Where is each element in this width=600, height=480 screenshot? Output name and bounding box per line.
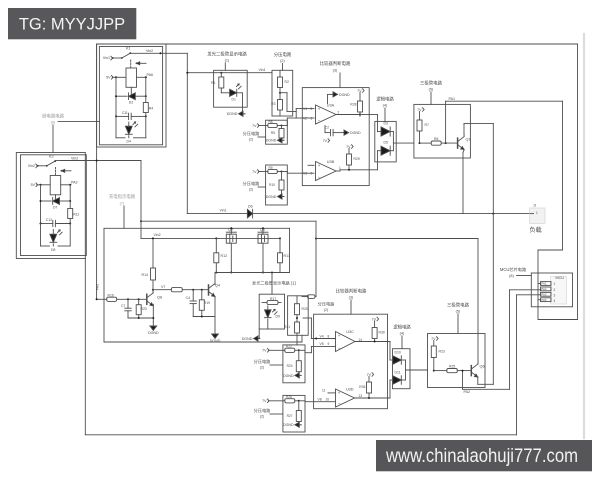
- svg-text:R7: R7: [425, 123, 429, 127]
- node Vin1 label top: [259, 68, 266, 72]
- wire label8 to box: [517, 275, 532, 277]
- switch K2: [37, 160, 56, 167]
- svg-text:R10: R10: [269, 183, 275, 187]
- svg-text:分压电路: 分压电路: [243, 130, 261, 137]
- svg-text:V7: V7: [161, 285, 165, 289]
- wire Vin2 vertical: [140, 161, 142, 239]
- svg-text:6: 6: [311, 117, 313, 121]
- capacitor C12: [40, 218, 72, 227]
- node V6 pin: [318, 398, 330, 402]
- svg-text:PA2: PA2: [541, 287, 547, 291]
- svg-text:(8): (8): [509, 274, 514, 278]
- svg-text:Q6: Q6: [480, 365, 485, 369]
- wire V1 V2 stubs: [296, 109, 302, 118]
- svg-text:D7: D7: [53, 205, 57, 209]
- svg-text:DGND: DGND: [350, 131, 361, 135]
- svg-text:分压电路: 分压电路: [274, 51, 292, 58]
- svg-text:−: −: [318, 174, 321, 179]
- node 7V divider G: [262, 399, 269, 403]
- svg-text:发光二极管显示电路 (1): 发光二极管显示电路 (1): [252, 280, 297, 287]
- svg-text:R24: R24: [287, 364, 293, 368]
- wire MCU pin1 stub: [538, 283, 541, 285]
- transistor Q7: [226, 228, 236, 243]
- relay1 outer box: [97, 44, 166, 147]
- wire label4b to box: [401, 336, 403, 349]
- svg-text:DGND: DGND: [283, 423, 294, 427]
- svg-text:(2): (2): [260, 366, 264, 370]
- header text TG: MYYJJPP: [19, 16, 125, 34]
- svg-text:7V: 7V: [262, 349, 267, 353]
- svg-text:三极管电路: 三极管电路: [447, 302, 470, 309]
- MCU pin1 PA1: [541, 282, 556, 287]
- node V3 pin: [302, 165, 314, 175]
- divider box A: [272, 70, 293, 116]
- svg-text:8: 8: [328, 334, 330, 338]
- svg-text:逻辑电路: 逻辑电路: [393, 324, 411, 331]
- wire PA2 horizontal: [463, 388, 510, 390]
- svg-text:R1: R1: [211, 81, 215, 85]
- svg-text:7V: 7V: [252, 124, 257, 128]
- label transistor circuit lower: [447, 302, 470, 314]
- svg-text:7V: 7V: [252, 170, 257, 174]
- charge box top edge: [141, 220, 316, 222]
- wire PA1 tap: [445, 101, 447, 143]
- op-amp U3C: [336, 330, 356, 352]
- label divider G: [254, 407, 283, 419]
- svg-text:R26: R26: [286, 395, 292, 399]
- wire Vin2 jog from relay K1: [166, 53, 187, 213]
- comparator box 2: [314, 314, 388, 409]
- svg-text:R20: R20: [302, 307, 308, 311]
- label charge circuit (7): [109, 193, 136, 228]
- svg-text:U3C: U3C: [346, 330, 354, 334]
- node Vin2 label relay1: [146, 49, 153, 53]
- wire logic1 out: [393, 132, 414, 151]
- wire U3A out: [336, 111, 369, 116]
- label divider small right: [318, 301, 336, 313]
- resistor R2: [278, 70, 289, 87]
- svg-text:7V: 7V: [323, 139, 328, 143]
- wire R12 to Q4 collector: [215, 263, 280, 285]
- divider box F: [283, 345, 305, 383]
- node PA3 label relay2: [71, 181, 78, 185]
- svg-text:9: 9: [328, 342, 330, 346]
- wire driver right edge: [289, 228, 291, 272]
- node 7V R29: [346, 145, 353, 149]
- relay2 aux contact: [61, 169, 71, 172]
- wire Q8 emitter bottom rail: [128, 304, 154, 322]
- wire relay2 coil bottom: [55, 195, 57, 201]
- svg-text:PA5: PA5: [541, 298, 547, 302]
- svg-text:Vin2: Vin2: [71, 157, 78, 161]
- wire U3B out: [336, 166, 369, 171]
- ground DGND divider B: [266, 138, 284, 143]
- svg-text:D2: D2: [129, 101, 133, 105]
- resistor R3: [271, 88, 282, 117]
- svg-text:三极管电路: 三极管电路: [420, 80, 443, 87]
- wire Q6 base drop: [462, 371, 464, 390]
- wire relay2 led rails: [41, 224, 71, 247]
- svg-text:R30: R30: [379, 331, 385, 335]
- svg-text:R22: R22: [286, 345, 292, 349]
- node pin 11: [322, 389, 335, 393]
- svg-text:PA1: PA1: [541, 282, 547, 286]
- svg-text:R11: R11: [73, 213, 79, 217]
- wire label4 to box: [384, 108, 386, 121]
- svg-text:(2): (2): [249, 188, 253, 192]
- wire relay2 right row: [61, 184, 71, 186]
- svg-text:C2: C2: [325, 126, 329, 130]
- capacitor C11: [115, 111, 147, 120]
- svg-text:R29: R29: [354, 157, 360, 161]
- diode D3: [381, 122, 393, 137]
- svg-text:R3: R3: [271, 102, 275, 106]
- label transistor circuit (5): [420, 80, 443, 92]
- svg-text:(2): (2): [280, 59, 285, 63]
- wire relay2 right rail: [69, 185, 71, 201]
- ground DGND divider G: [283, 422, 301, 427]
- MCU body: [551, 277, 567, 305]
- svg-text:PA2: PA2: [464, 390, 471, 394]
- wire Q4 emitter down: [214, 297, 216, 331]
- node PA1 label: [449, 97, 456, 101]
- wire Q1 collector jog: [464, 124, 493, 135]
- wire PA1 jog horizontal: [538, 249, 563, 251]
- capacitor C4: [186, 290, 197, 317]
- svg-text:PA3: PA3: [71, 181, 78, 185]
- node 7V R28: [357, 89, 364, 93]
- resistor R15: [153, 288, 209, 292]
- wire MCU loop left vertical: [537, 250, 539, 320]
- resistor R21: [284, 315, 299, 333]
- op-amp U3A: [316, 104, 337, 125]
- resistor R18 jog: [302, 295, 316, 299]
- relay2 outer box: [16, 153, 85, 259]
- svg-text:(5): (5): [429, 88, 434, 92]
- ground DGND led1: [227, 111, 245, 116]
- wire divider G out: [299, 400, 305, 403]
- svg-text:U3A: U3A: [327, 104, 335, 108]
- resistor R11: [68, 201, 80, 224]
- svg-text:10: 10: [326, 398, 330, 402]
- label LED display circuit (1): [207, 51, 247, 63]
- wire Q7 drain up: [230, 227, 232, 234]
- wire PA3 stub to MCU pin3: [517, 294, 541, 296]
- wire Q1 collector: [463, 135, 465, 137]
- svg-text:D3: D3: [384, 122, 388, 126]
- charge box right lower stub: [301, 335, 303, 342]
- svg-text:R20: R20: [141, 307, 147, 311]
- resistor R28: [350, 93, 362, 117]
- node V1 pin: [302, 107, 314, 111]
- wire R1 feed: [220, 73, 222, 77]
- svg-text:U3D: U3D: [346, 388, 354, 392]
- svg-text:R6: R6: [434, 137, 438, 141]
- svg-text:分压电路: 分压电路: [254, 358, 272, 365]
- svg-text:3: 3: [554, 293, 556, 297]
- ground DGND driver left: [148, 322, 159, 335]
- wire label3b to box: [350, 300, 352, 314]
- wire C4 R19 bottom rail: [193, 316, 215, 318]
- wire K1 to edge: [130, 52, 166, 54]
- diode D10: [393, 350, 406, 364]
- label load: [529, 226, 541, 234]
- svg-text:(4): (4): [400, 332, 405, 336]
- relay K2 label: [49, 155, 54, 159]
- svg-text:R9: R9: [269, 166, 273, 170]
- wire U3B out to D5: [369, 151, 381, 170]
- transistor Q1: [458, 137, 471, 150]
- node PA5 vertical label: [95, 284, 99, 290]
- svg-text:C12: C12: [46, 218, 52, 222]
- wire label6 to relay1: [58, 121, 99, 123]
- ground DGND driver mid: [210, 330, 221, 343]
- label relay circuit (6): [42, 113, 65, 125]
- label comparator circuit (3): [320, 60, 351, 73]
- wire V5 into box: [305, 346, 335, 352]
- svg-text:R19: R19: [204, 301, 210, 305]
- divider box B: [266, 120, 288, 144]
- svg-text:D6: D6: [248, 204, 253, 208]
- svg-text:DGND: DGND: [266, 139, 277, 143]
- svg-text:R4: R4: [149, 107, 153, 111]
- svg-text:D9: D9: [276, 315, 280, 319]
- svg-text:逻辑电路: 逻辑电路: [376, 96, 394, 103]
- svg-text:(2): (2): [324, 308, 328, 312]
- node Vin2 label driver: [154, 233, 161, 237]
- resistor R26: [269, 395, 300, 403]
- svg-text:MCU: MCU: [556, 276, 565, 280]
- relay2 coil: [50, 176, 61, 195]
- label divider C: [243, 180, 266, 192]
- node Vin2 label relay2: [71, 157, 78, 161]
- svg-text:DGND: DGND: [339, 93, 350, 97]
- wire R16 row: [96, 298, 107, 300]
- svg-text:Vin2: Vin2: [154, 233, 161, 237]
- svg-text:Vin1: Vin1: [103, 56, 110, 60]
- load connector J1: [530, 204, 546, 224]
- wire V4 into box: [311, 318, 335, 340]
- resistor R13: [278, 238, 291, 262]
- svg-text:R27: R27: [287, 414, 293, 418]
- svg-text:J1: J1: [533, 204, 537, 208]
- wire LED2 feed: [271, 273, 273, 295]
- resistor R19: [199, 290, 210, 317]
- footer text www.chinalaohuji777.com: [385, 446, 578, 467]
- svg-text:(2): (2): [260, 415, 264, 419]
- node Vin1 label mid: [220, 209, 227, 213]
- svg-text:2: 2: [338, 111, 340, 115]
- svg-text:继电器电路: 继电器电路: [42, 113, 65, 120]
- wire divider F out: [299, 350, 305, 352]
- svg-text:K1: K1: [126, 47, 131, 51]
- ground DGND U3A top: [328, 92, 350, 104]
- svg-text:7V: 7V: [262, 399, 267, 403]
- resistor R17: [262, 297, 281, 305]
- capacitor C2: [325, 126, 344, 136]
- wire Q7 source down: [230, 243, 232, 273]
- transistor Q9: [258, 228, 268, 243]
- wire relay2 Vin2 out: [61, 160, 142, 162]
- wire driver mid rail: [215, 272, 289, 274]
- svg-text:www.chinalaohuji777.com: www.chinalaohuji777.com: [385, 446, 578, 467]
- wire U3C out: [355, 338, 390, 343]
- resistor R14: [142, 237, 156, 280]
- relay1 inner box: [99, 47, 162, 145]
- svg-text:分压电路: 分压电路: [243, 180, 261, 187]
- divider box C: [266, 165, 288, 205]
- wire PA2 vertical: [509, 290, 511, 390]
- svg-text:D5: D5: [384, 141, 388, 145]
- svg-text:Vin1: Vin1: [259, 68, 266, 72]
- resistor R12: [214, 238, 227, 262]
- node 5V terminal relay1: [106, 76, 113, 80]
- svg-text:V4: V4: [320, 334, 324, 338]
- wire relay1 5V row: [112, 76, 126, 78]
- svg-text:R25: R25: [449, 364, 455, 368]
- wire label1 to box: [224, 63, 226, 70]
- resistor R8: [259, 120, 283, 128]
- svg-text:R2: R2: [285, 80, 289, 84]
- wire relay1 right row: [137, 76, 147, 78]
- svg-text:(3): (3): [349, 296, 354, 300]
- wire load rail: [187, 213, 530, 215]
- svg-text:充电指示电路: 充电指示电路: [109, 193, 136, 200]
- svg-text:DGND: DGND: [266, 195, 277, 199]
- resistor R20a: [136, 299, 147, 318]
- svg-text:Vin1: Vin1: [220, 209, 227, 213]
- svg-text:13: 13: [359, 394, 363, 398]
- relay1 coil: [126, 68, 137, 87]
- svg-text:7V: 7V: [372, 317, 377, 321]
- svg-text:R5: R5: [271, 131, 275, 135]
- charge box right edge: [315, 221, 317, 296]
- transistor box 5: [414, 104, 471, 158]
- wire R1 to D1: [221, 88, 230, 93]
- node V4 pin: [320, 334, 330, 338]
- node V2 pin: [302, 117, 314, 121]
- wire label5 to box: [430, 92, 432, 104]
- svg-text:Vin2: Vin2: [28, 164, 35, 168]
- wire MCU loop bottom: [538, 319, 578, 321]
- svg-text:PA5: PA5: [95, 284, 99, 290]
- LED D8: [41, 230, 71, 252]
- svg-text:DGND: DGND: [148, 331, 159, 335]
- svg-text:V2: V2: [303, 117, 307, 121]
- svg-text:−: −: [338, 401, 341, 406]
- svg-text:Vin2: Vin2: [146, 49, 153, 53]
- relay2 inner box: [21, 155, 87, 256]
- svg-text:发光二极管显示电路: 发光二极管显示电路: [207, 51, 247, 58]
- node 7V divider B: [252, 124, 259, 128]
- svg-text:R34: R34: [359, 385, 365, 389]
- svg-text:TG: MYYJJPP: TG: MYYJJPP: [19, 16, 125, 34]
- svg-text:+: +: [338, 333, 341, 338]
- wire relay2 5V row: [37, 184, 50, 186]
- svg-text:C7: C7: [121, 304, 125, 308]
- charge box second top: [104, 227, 290, 229]
- wire PA5 top rail: [97, 43, 578, 45]
- wire Vin1 rail top: [186, 72, 272, 74]
- wire PA3 left border: [84, 259, 86, 435]
- svg-text:V8: V8: [318, 398, 322, 402]
- wire right border vertical: [577, 44, 579, 320]
- svg-text:分压电路: 分压电路: [318, 301, 336, 308]
- ground DGND led2: [242, 329, 260, 341]
- svg-text:R16: R16: [108, 293, 114, 297]
- label divider A: [274, 51, 292, 63]
- resistor R23: [431, 341, 445, 372]
- diode D5: [381, 141, 393, 156]
- resistor R29: [347, 149, 360, 170]
- resistor R9: [259, 166, 283, 174]
- svg-text:DGND: DGND: [227, 112, 238, 116]
- wire PA3 right vertical: [516, 295, 518, 435]
- svg-text:C4: C4: [186, 296, 190, 300]
- ground DGND C2: [344, 130, 361, 135]
- svg-text:D10: D10: [395, 350, 401, 354]
- wire divider E out: [297, 318, 311, 335]
- wire relay1 coil bottom: [130, 87, 132, 96]
- svg-text:5V: 5V: [106, 76, 111, 80]
- svg-text:K2: K2: [49, 155, 54, 159]
- node 7V R23: [431, 337, 438, 341]
- svg-text:DGND: DGND: [283, 374, 294, 378]
- header badge: [8, 8, 136, 39]
- wire label5b to box: [457, 314, 459, 334]
- svg-text:分压电路: 分压电路: [254, 407, 272, 414]
- wire U3D to D11: [390, 380, 394, 398]
- svg-text:R12: R12: [221, 254, 228, 258]
- svg-text:5V: 5V: [31, 183, 36, 187]
- LED D1: [230, 84, 243, 107]
- resistor R4: [143, 96, 153, 116]
- label comparator circuit 2: [336, 288, 367, 300]
- label MCU circuit (8): [500, 266, 527, 278]
- wire PA2 stub to MCU pin2: [510, 289, 541, 291]
- svg-text:PA3: PA3: [541, 292, 547, 296]
- LED D4: [116, 122, 146, 144]
- wire Q6 emitter out: [478, 377, 494, 384]
- svg-text:MCU芯片电路: MCU芯片电路: [500, 266, 527, 273]
- wire load vertical: [492, 124, 494, 385]
- svg-text:D8: D8: [51, 248, 55, 252]
- svg-text:PA6: PA6: [147, 73, 154, 77]
- svg-text:Q1: Q1: [466, 138, 471, 142]
- svg-text:R23: R23: [439, 350, 445, 354]
- node PA6 label relay1: [147, 73, 154, 77]
- node Vin1 terminal relay1: [103, 56, 113, 60]
- svg-text:(7): (7): [120, 202, 125, 206]
- svg-text:V5: V5: [320, 342, 324, 346]
- wire Q6 collector up: [477, 363, 479, 365]
- resistor R7: [417, 112, 429, 145]
- wire relay1 left rail: [115, 77, 117, 116]
- wire relay2 left rail: [40, 185, 42, 224]
- resistor R16: [107, 293, 147, 301]
- logic box 2: [393, 349, 411, 389]
- svg-text:+: +: [318, 107, 321, 112]
- wire Q9 drain up: [262, 227, 264, 234]
- wire relay1 led rails: [116, 116, 146, 137]
- resistor R24: [287, 350, 302, 375]
- node 7V divider F: [262, 349, 269, 353]
- MCU pin2 PA2: [541, 287, 556, 292]
- wire divider C out: [282, 172, 303, 174]
- charge box left edge: [103, 228, 105, 342]
- comparator box 1: [302, 88, 369, 186]
- wire K2 dashed: [55, 168, 57, 175]
